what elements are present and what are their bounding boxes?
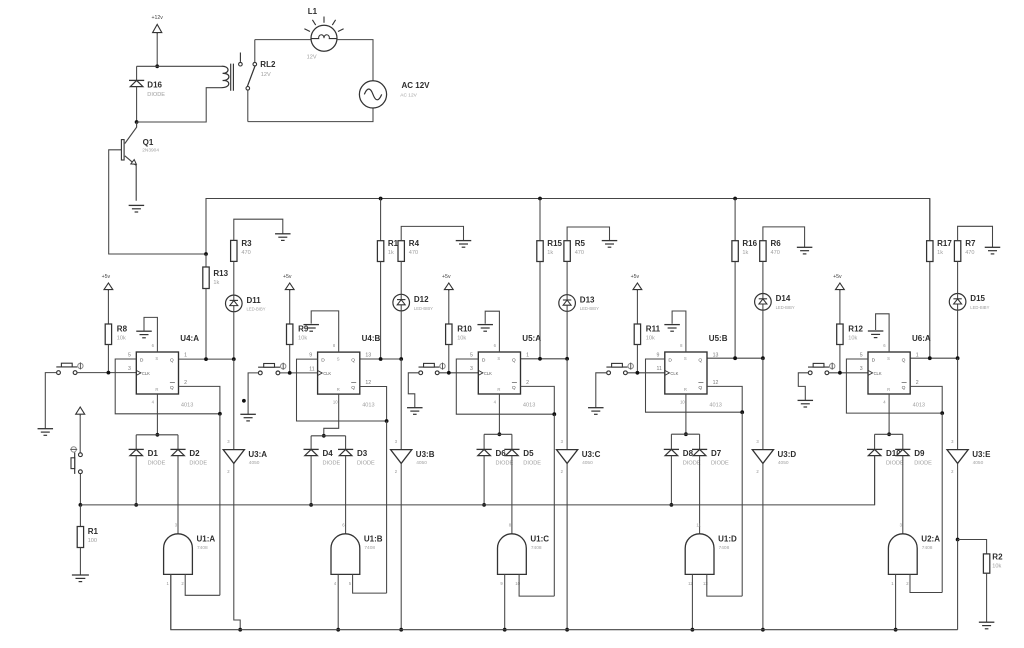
wire D1 to bus — [135, 456, 137, 505]
wire R16 to Q node — [734, 262, 736, 359]
wire Q node to buffer U3:A — [233, 359, 235, 450]
push button stage 3 — [419, 363, 446, 375]
svg-text:R16: R16 — [742, 239, 757, 248]
wire lower button to bus — [79, 474, 81, 505]
svg-text:U3:B: U3:B — [416, 450, 435, 459]
wire +5V arrow to button — [79, 414, 81, 453]
D flip-flop U6:A (4013) — [860, 334, 931, 409]
wire buffer U3:B output to bottom rail — [400, 463, 402, 629]
svg-text:1k: 1k — [937, 250, 943, 256]
svg-text:13: 13 — [365, 353, 371, 359]
push button stage 2 — [258, 363, 286, 375]
junction D feedback/Qbar — [218, 412, 222, 416]
wire diode tee — [671, 433, 699, 435]
wire R9 to CLK node — [289, 345, 291, 373]
svg-text:+5v: +5v — [833, 274, 842, 280]
resistor R3 body — [231, 240, 237, 261]
svg-text:+5v: +5v — [102, 274, 111, 280]
wire Q node to buffer U3:E — [957, 358, 959, 449]
svg-text:Q: Q — [512, 358, 516, 364]
wire LED D11 to Q node — [233, 312, 235, 359]
wire R10 to CLK node — [448, 345, 450, 373]
label R10 10k — [457, 325, 472, 342]
push button stage 5 — [808, 363, 835, 375]
wire RESET pin to diode tee — [156, 394, 158, 435]
svg-text:LED-BIBY: LED-BIBY — [970, 305, 989, 310]
wire Qbar node to gate input loop — [219, 414, 221, 596]
wire U3:E node to R2 — [958, 540, 987, 554]
junction U3:A output/rail — [238, 628, 242, 632]
svg-text:DIODE: DIODE — [914, 461, 932, 467]
svg-text:2: 2 — [526, 380, 529, 386]
buffer U3:A — [223, 439, 267, 474]
AND gate U1:D — [685, 523, 737, 586]
label R1 100 — [88, 527, 99, 544]
wire Q output U2:A stage — [910, 357, 957, 359]
svg-text:S: S — [887, 356, 890, 361]
svg-text:D9: D9 — [914, 449, 925, 458]
junction rail/R16 — [733, 197, 737, 201]
svg-text:10: 10 — [515, 581, 520, 586]
svg-text:4013: 4013 — [709, 403, 721, 409]
svg-text:DIODE: DIODE — [148, 461, 166, 467]
svg-text:10k: 10k — [457, 336, 466, 342]
wire LED D12 to Q node — [400, 311, 402, 359]
junction R9/CLK — [288, 371, 292, 375]
AC source AC 12V — [359, 81, 430, 108]
wire tee to D3 — [345, 436, 347, 450]
wire R1 to ground — [79, 548, 81, 576]
power +5V stage 1 — [102, 274, 113, 291]
svg-text:D13: D13 — [580, 295, 595, 304]
junction Q/LED column — [956, 356, 960, 360]
svg-text:DIODE: DIODE — [886, 461, 904, 467]
svg-text:R: R — [887, 387, 890, 392]
wire R11 to CLK node — [636, 345, 638, 373]
svg-text:1k: 1k — [742, 250, 748, 256]
wire R3 to ground — [234, 219, 283, 240]
wire buffer U3:C output to bottom rail — [566, 463, 568, 629]
label RL2 12V — [260, 60, 276, 78]
junction R10/CLK — [447, 371, 451, 375]
junction reset tee — [322, 434, 326, 438]
svg-text:10k: 10k — [848, 336, 857, 342]
svg-text:2N3904: 2N3904 — [142, 148, 159, 154]
svg-text:470: 470 — [409, 250, 418, 256]
wire bottom AND rail — [171, 574, 958, 629]
label R14 1k — [388, 239, 403, 256]
wire Q node to buffer U3:B — [400, 359, 402, 450]
svg-text:Q: Q — [698, 385, 702, 391]
label R12 10k — [848, 325, 863, 342]
svg-text:Q: Q — [698, 358, 702, 364]
wire RESET pin to diode tee — [498, 394, 500, 434]
wire RESET pin to diode tee — [324, 394, 339, 436]
junction U1:B input/rail — [336, 628, 340, 632]
ground R3 — [275, 234, 291, 241]
svg-text:D8: D8 — [683, 449, 694, 458]
relay switch RL2 — [239, 53, 257, 91]
svg-text:U5:A: U5:A — [522, 334, 541, 343]
svg-text:12: 12 — [365, 380, 371, 386]
wire rail to R16 — [734, 199, 736, 241]
wire SET pin to ground — [144, 317, 157, 352]
junction button/R1/bus — [79, 503, 83, 507]
svg-text:Q: Q — [170, 358, 174, 364]
relay coil RL2 — [222, 64, 234, 91]
svg-text:4050: 4050 — [973, 460, 984, 466]
svg-text:Q: Q — [902, 358, 906, 364]
svg-text:R: R — [684, 387, 687, 392]
svg-text:U1:C: U1:C — [530, 534, 549, 543]
wire SET pin to ground — [876, 314, 890, 352]
svg-text:3: 3 — [128, 366, 131, 372]
svg-text:R: R — [155, 387, 158, 392]
junction collector node — [135, 120, 139, 124]
ground button stage 2 — [240, 414, 256, 421]
diode D7 — [692, 449, 729, 466]
wire tee to D7 — [699, 434, 701, 449]
wire lamp to AC source — [337, 40, 373, 81]
wire bus to R1 — [79, 505, 81, 527]
svg-text:10k: 10k — [646, 336, 655, 342]
wire button to CLK pin — [280, 372, 318, 374]
power +5V stage 4 — [631, 274, 642, 291]
svg-text:D: D — [668, 358, 672, 364]
wire LED D13 to Q node — [566, 311, 568, 359]
wire +5V to R8 — [107, 290, 109, 324]
wire tee to D1 — [135, 435, 137, 450]
svg-text:11: 11 — [657, 366, 662, 372]
AND gate U1:B — [331, 523, 383, 586]
label R15 1k — [547, 239, 562, 256]
wire RESET pin to diode tee — [685, 394, 687, 434]
diode D10 — [867, 449, 904, 466]
wire Q node to buffer U3:C — [566, 359, 568, 450]
svg-text:U2:A: U2:A — [921, 534, 940, 543]
svg-text:R5: R5 — [575, 239, 586, 248]
junction U3:B output/rail — [399, 628, 403, 632]
power +5V stage 2 — [283, 274, 294, 291]
ground button stage 1 — [38, 429, 54, 436]
wire D7 to gate U1:D output — [699, 456, 701, 534]
resistor R16 body — [732, 241, 738, 262]
wire R3 to LED D11 — [233, 261, 235, 295]
svg-text:CLK: CLK — [670, 371, 678, 376]
wire button to CLK pin — [77, 372, 136, 374]
svg-text:470: 470 — [241, 250, 250, 256]
wire D9 to gate U2:A output — [902, 456, 904, 534]
ground R2 — [979, 622, 995, 629]
svg-text:S: S — [497, 356, 500, 361]
svg-text:CLK: CLK — [874, 371, 882, 376]
wire D2 to gate U1:A output — [177, 456, 179, 534]
stray node dot — [242, 399, 246, 403]
wire rail to R17 — [929, 199, 931, 241]
wire top rail — [206, 199, 930, 255]
svg-text:D16: D16 — [147, 81, 162, 90]
diode D3 — [338, 449, 375, 466]
wire U2:A right input loop — [910, 574, 942, 592]
svg-text:1: 1 — [916, 353, 919, 359]
svg-text:Q: Q — [902, 385, 906, 391]
svg-text:R7: R7 — [965, 239, 976, 248]
diode D6 — [477, 449, 514, 466]
D flip-flop U5:A (4013) — [470, 334, 541, 409]
svg-text:U4:B: U4:B — [362, 334, 381, 343]
wire SET pin to ground — [672, 311, 686, 352]
wire R2 to ground — [986, 573, 988, 622]
svg-text:7408: 7408 — [719, 545, 730, 551]
power +12V arrow — [151, 15, 163, 34]
svg-text:10k: 10k — [992, 563, 1001, 569]
svg-text:470: 470 — [575, 250, 584, 256]
svg-text:D3: D3 — [357, 449, 368, 458]
svg-text:U5:B: U5:B — [709, 334, 728, 343]
resistor R9 body — [287, 324, 293, 345]
resistor R5 body — [564, 241, 570, 262]
ground button stage 5 — [798, 400, 814, 407]
resistor R12 body — [837, 324, 843, 345]
push button stage 4 — [606, 363, 633, 375]
junction Q/R15 — [538, 357, 542, 361]
svg-text:1k: 1k — [547, 250, 553, 256]
svg-text:D15: D15 — [970, 294, 985, 303]
wire U3:E output to bottom rail corner — [957, 540, 959, 630]
junction Q/R16 — [733, 356, 737, 360]
svg-text:10k: 10k — [117, 336, 126, 342]
svg-text:R17: R17 — [937, 239, 952, 248]
wire R12 to CLK node — [839, 345, 841, 373]
junction D8/bus — [670, 503, 674, 507]
ground Q1 emitter — [129, 205, 145, 212]
junction rail/R14 — [379, 197, 383, 201]
wire Qbar node to gate input loop — [386, 421, 388, 593]
resistor R8 body — [105, 324, 111, 345]
wire buffer U3:D output to bottom rail — [762, 463, 764, 629]
resistor R11 body — [634, 324, 640, 345]
wire U2:A left input to rail — [895, 574, 897, 629]
svg-text:DIODE: DIODE — [357, 461, 375, 467]
diode D4 — [304, 449, 341, 466]
svg-text:D7: D7 — [711, 449, 722, 458]
resistor R14 body — [377, 241, 383, 262]
svg-text:R9: R9 — [298, 325, 309, 334]
junction D feedback/Qbar — [552, 412, 556, 416]
svg-text:D14: D14 — [776, 294, 791, 303]
svg-text:R3: R3 — [241, 239, 252, 248]
wire D4 to bus — [310, 456, 312, 505]
wire D16 cathode branch — [136, 66, 138, 80]
junction D6/bus — [482, 503, 486, 507]
LED D13 — [559, 295, 599, 312]
svg-text:D: D — [482, 358, 486, 364]
svg-text:2: 2 — [184, 380, 187, 386]
label R13 1k — [213, 269, 228, 286]
svg-text:4050: 4050 — [249, 460, 260, 466]
svg-text:U1:D: U1:D — [718, 534, 737, 543]
svg-text:470: 470 — [771, 250, 780, 256]
svg-text:13: 13 — [703, 581, 708, 586]
wire diode tee — [484, 433, 512, 435]
svg-text:U1:B: U1:B — [364, 534, 383, 543]
wire U1:A left input to rail — [170, 574, 172, 629]
svg-text:4013: 4013 — [913, 403, 925, 409]
resistor R7 body — [954, 241, 960, 262]
wire R6 to LED D14 — [762, 261, 764, 293]
junction R12/CLK — [838, 371, 842, 375]
wire Q output U1:C stage — [521, 358, 568, 360]
wire R6 to ground — [763, 227, 805, 247]
svg-text:5: 5 — [860, 353, 863, 359]
svg-text:5: 5 — [128, 353, 131, 359]
svg-text:U3:A: U3:A — [248, 450, 267, 459]
svg-text:470: 470 — [965, 250, 974, 256]
wire LED D15 to Q node — [957, 310, 959, 358]
junction D feedback/Qbar — [385, 419, 389, 423]
svg-text:R12: R12 — [848, 325, 863, 334]
svg-text:3: 3 — [860, 366, 863, 372]
svg-text:12V: 12V — [307, 55, 317, 61]
wire R7 to LED D15 — [957, 261, 959, 293]
buffer U3:C — [557, 439, 601, 474]
junction reset tee — [156, 433, 160, 437]
junction Q/LED column — [399, 357, 403, 361]
junction U1:C input/rail — [503, 628, 507, 632]
svg-text:DIODE: DIODE — [496, 461, 514, 467]
wire tee to D4 — [310, 436, 312, 450]
diode D5 — [504, 449, 541, 466]
label R3 470 — [241, 239, 252, 256]
buffer U3:E — [947, 439, 991, 474]
wire tee to D6 — [483, 434, 485, 449]
label R17 1k — [937, 239, 952, 256]
wire button to ground — [248, 373, 258, 414]
svg-text:U3:D: U3:D — [778, 450, 797, 459]
junction Q/LED column — [761, 356, 765, 360]
wire +12V rail to relay coil — [137, 65, 222, 67]
svg-text:DIODE: DIODE — [147, 92, 165, 98]
wire diode tee — [136, 434, 178, 436]
svg-text:R2: R2 — [992, 552, 1003, 561]
diode D16 — [129, 80, 165, 98]
junction D1/bus — [134, 503, 138, 507]
svg-text:10: 10 — [333, 400, 338, 405]
svg-text:R4: R4 — [409, 239, 420, 248]
svg-text:Q: Q — [351, 358, 355, 364]
svg-text:D: D — [140, 358, 144, 364]
wire Qbar node to gate input loop — [741, 412, 743, 596]
buffer U3:D — [752, 439, 796, 474]
wire D5 to gate U1:C output — [511, 456, 513, 534]
svg-text:11: 11 — [309, 366, 314, 372]
wire relay contact up — [254, 40, 256, 63]
wire D6 to bus — [483, 456, 485, 505]
wire D10 to bus — [874, 456, 876, 505]
wire diode tee — [311, 435, 346, 437]
diode D2 — [170, 449, 207, 466]
svg-text:12V: 12V — [261, 72, 271, 78]
diode D8 — [664, 449, 701, 466]
wire Q output U1:A stage — [179, 358, 234, 360]
wire Qbar pin to feedback — [360, 387, 387, 422]
wire rail to R15 — [539, 199, 541, 241]
label R4 470 — [409, 239, 420, 256]
svg-text:U3:C: U3:C — [582, 450, 601, 459]
label R7 470 — [965, 239, 976, 256]
svg-text:4050: 4050 — [582, 460, 593, 466]
svg-text:13: 13 — [713, 353, 719, 359]
wire D pin feedback — [456, 359, 554, 414]
svg-text:LED-BIBY: LED-BIBY — [247, 307, 266, 312]
svg-text:Q: Q — [351, 385, 355, 391]
wire U1:A right input loop — [185, 574, 220, 595]
wire U1:C right input loop — [519, 574, 554, 596]
svg-text:CLK: CLK — [323, 371, 331, 376]
wire Q node to buffer U3:D — [762, 358, 764, 449]
junction reset tee — [498, 432, 502, 436]
junction Q/R13 — [204, 357, 208, 361]
svg-text:4013: 4013 — [523, 403, 535, 409]
svg-text:DIODE: DIODE — [523, 461, 541, 467]
svg-text:10: 10 — [680, 400, 685, 405]
wire R13 to Q node — [205, 289, 207, 360]
ground SET stage 1 — [136, 331, 152, 338]
wire R4 to LED D12 — [400, 261, 402, 294]
wire rail to R14 — [380, 199, 382, 241]
junction Q/LED column — [565, 357, 569, 361]
wire SET pin to ground — [311, 311, 339, 352]
wire buffer U3:E output down — [957, 463, 959, 539]
junction U2:A input/rail — [894, 628, 898, 632]
wire diode tee — [875, 433, 903, 435]
wire D8 to bus — [670, 456, 672, 505]
svg-text:100: 100 — [88, 538, 97, 544]
wire +12V arrow to rail — [156, 33, 158, 67]
wire tee to D10 — [874, 434, 876, 449]
LED D11 — [226, 295, 266, 312]
junction rail/R15 — [538, 197, 542, 201]
ground button stage 4 — [588, 408, 604, 415]
LED D12 — [393, 294, 433, 311]
junction D feedback/Qbar — [740, 410, 744, 414]
svg-text:+5v: +5v — [631, 274, 640, 280]
wire Q output U1:B stage — [360, 358, 401, 360]
svg-text:+12v: +12v — [151, 15, 163, 21]
svg-text:D4: D4 — [323, 449, 334, 458]
label R8 10k — [117, 325, 128, 342]
LED D15 — [949, 294, 989, 311]
D flip-flop U4:B (4013) — [309, 334, 380, 409]
wire buffer U3:A output to bottom rail — [234, 463, 240, 629]
svg-text:1k: 1k — [213, 280, 219, 286]
resistor R1 body — [77, 527, 83, 548]
svg-text:R11: R11 — [646, 325, 661, 334]
svg-text:CLK: CLK — [484, 371, 492, 376]
ground SET stage 4 — [664, 325, 680, 332]
svg-text:+5v: +5v — [283, 274, 292, 280]
wire R14 to Q node — [380, 262, 382, 360]
svg-text:RL2: RL2 — [260, 60, 276, 69]
wire U1:D left input to rail — [691, 574, 693, 629]
D flip-flop U5:B (4013) — [657, 334, 728, 409]
wire SET pin to ground — [485, 311, 499, 352]
label R6 470 — [771, 239, 782, 256]
wire R15 to Q node — [539, 262, 541, 359]
wire RESET pin to diode tee — [888, 394, 890, 434]
wire clock-set bus — [80, 456, 874, 505]
svg-text:S: S — [337, 356, 340, 361]
